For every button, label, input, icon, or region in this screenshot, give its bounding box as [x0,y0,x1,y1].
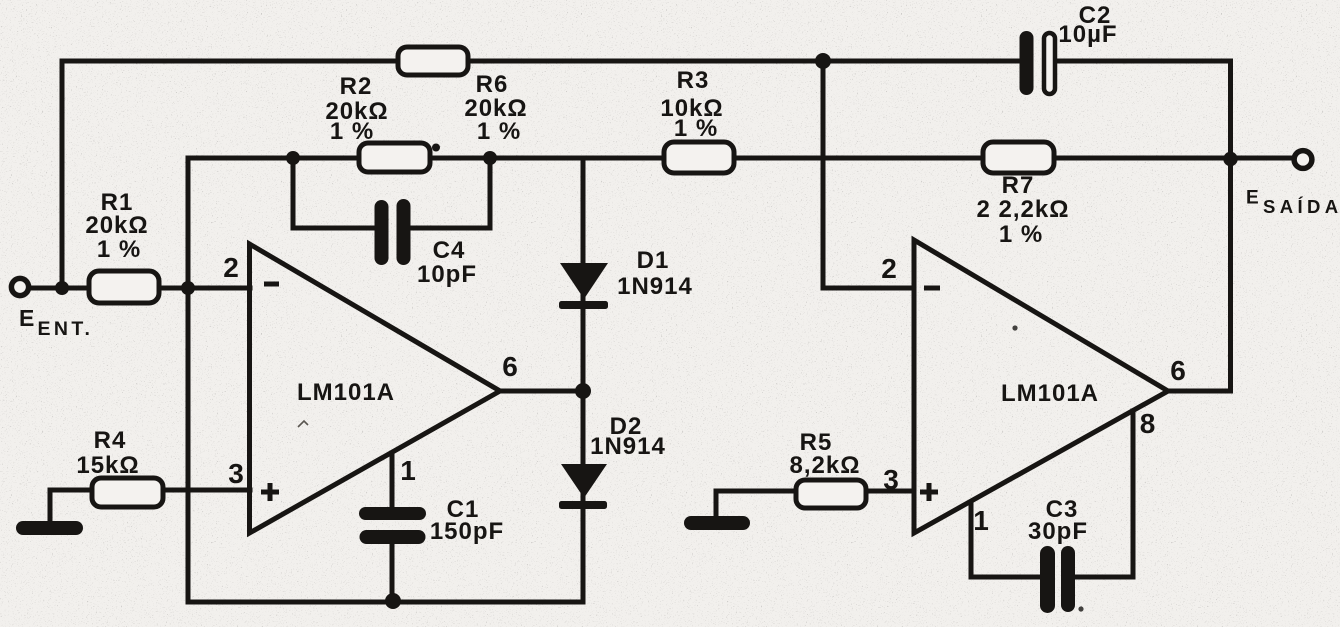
terminal E ENT [11,278,28,295]
svg-text:SAÍDA: SAÍDA [1263,196,1340,217]
junction dot R2 left [286,151,300,165]
resistor R5 body [796,480,866,508]
svg-text:1N914: 1N914 [617,273,693,300]
svg-text:LM101A: LM101A [297,379,395,406]
svg-text:2 2,2kΩ: 2 2,2kΩ [977,196,1070,223]
stray dot near R2 [432,144,440,152]
capacitor C1 top plate [359,507,426,520]
svg-text:6: 6 [1170,355,1186,386]
svg-text:ENT.: ENT. [38,318,94,340]
junction dot op1 output [575,383,591,399]
svg-text:C4: C4 [433,237,466,264]
ground for R5 [684,516,750,530]
svg-text:30pF: 30pF [1028,518,1088,545]
junction dot R1 right [181,281,195,295]
op-amp U1 triangle [250,244,501,533]
svg-text:1 %: 1 % [999,221,1043,248]
svg-text:2: 2 [223,252,239,283]
svg-text:1: 1 [400,455,416,486]
svg-text:6: 6 [502,351,518,382]
op-amp U2 triangle [914,240,1168,533]
diode D2 [561,464,607,498]
junction dot R2 right [483,151,497,165]
wire top junction riser x=823 to pin2 of op2 [823,61,914,288]
svg-text:8,2kΩ: 8,2kΩ [790,452,861,479]
svg-text:1 %: 1 % [330,118,374,145]
svg-text:E: E [19,305,34,331]
op-amp U1 minus sign [264,282,279,287]
op-amp U2 plus sign [920,483,938,501]
wire left loop x=188 down and bottom rail to x=583 and up to mid rail [188,158,583,602]
wire op1 output to diode chain [500,389,583,394]
resistor R3 body [664,142,734,173]
wire C1 branch upper [390,453,395,512]
svg-text:1 %: 1 % [674,115,718,142]
ground for R4 [16,521,83,535]
svg-text:R3: R3 [677,67,710,94]
svg-text:2: 2 [881,253,897,284]
speck near U1 [298,421,308,427]
svg-text:150pF: 150pF [430,518,504,545]
capacitor C3 left plate [1040,546,1055,613]
speck inside U2 [1012,325,1017,330]
wire C4 right branch [404,158,490,228]
diode D1 [560,263,608,299]
svg-text:R6: R6 [476,71,509,98]
junction dot bottom rail [385,593,401,609]
junction dot input [55,281,69,295]
junction dot top rail [815,53,831,69]
wire C4 left branch [293,158,380,228]
capacitor C2 right plate (outlined) [1044,33,1055,94]
node E SAIDA label [1246,188,1340,218]
wire C1 branch lower [390,540,395,602]
svg-text:10pF: 10pF [417,261,477,288]
terminal E SAIDA [1294,151,1312,169]
svg-text:1N914: 1N914 [590,433,666,460]
capacitor C1 bottom plate [360,530,426,544]
svg-text:20kΩ: 20kΩ [85,212,148,239]
capacitor C3 right plate [1061,546,1075,612]
svg-text:10µF: 10µF [1058,21,1117,48]
wire input to pin2 [30,286,250,291]
svg-text:1: 1 [973,505,989,536]
resistor R6 body [398,47,468,75]
svg-text:3: 3 [883,464,899,495]
wire mid rail y=158 [188,156,1292,161]
svg-text:D1: D1 [637,247,670,274]
resistor R2 body [359,143,430,172]
wire op2 pin1 to C3 [971,503,1046,577]
wire R5 ground branch to pin3 of op2 [716,491,914,516]
speck right of C3 [1078,606,1083,611]
svg-text:3: 3 [228,458,244,489]
node E ENT label [19,305,93,340]
svg-text:8: 8 [1140,408,1156,439]
wire left riser x=62 [60,61,65,288]
svg-text:15kΩ: 15kΩ [76,452,139,479]
capacitor C2 left plate [1020,31,1034,95]
svg-text:1 %: 1 % [477,118,521,145]
svg-text:1 %: 1 % [97,236,141,263]
svg-text:R2: R2 [340,73,373,100]
resistor R4 body [92,478,163,507]
wire op2 pin8 to C3 [1068,411,1133,577]
capacitor C4 left plate [375,200,389,265]
resistor R7 body [983,142,1054,173]
op-amp U1 plus sign [261,483,279,501]
svg-text:R7: R7 [1002,172,1035,199]
svg-text:LM101A: LM101A [1001,380,1099,407]
wire right vertical x=1228 from top rail to op2 output [1168,61,1231,391]
resistor R1 body [89,271,159,303]
svg-text:E: E [1246,188,1259,209]
capacitor C4 right plate [397,199,411,265]
junction dot output node [1223,152,1237,166]
wire top rail from input riser to right corner [62,59,1231,64]
svg-text:R4: R4 [94,427,127,454]
op-amp U2 minus sign [924,286,940,291]
wire R4 ground branch to pin3 [50,490,250,521]
